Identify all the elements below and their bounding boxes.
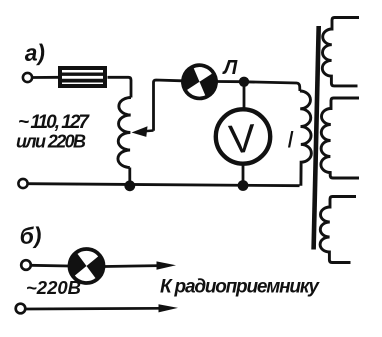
tap wire up to lamp level	[154, 80, 183, 131]
svg-text:или 220В: или 220В	[16, 132, 86, 152]
svg-text:~ 110, 127: ~ 110, 127	[18, 112, 90, 133]
terminal top-left	[23, 73, 32, 82]
wire bottom arrow	[26, 304, 179, 312]
svg-text:Л: Л	[222, 57, 239, 79]
wire junction to primary top	[244, 82, 300, 91]
junction dot top	[239, 77, 249, 87]
svg-text:I: I	[287, 127, 294, 154]
secondary winding middle	[321, 98, 359, 178]
arrow lamp to receiver	[105, 261, 177, 269]
wire terminal to fuse	[32, 76, 59, 79]
junction dot bottom	[238, 180, 249, 191]
secondary winding top	[322, 18, 359, 86]
terminal bottom-left	[18, 179, 27, 188]
wire fuse to coil top	[108, 77, 132, 97]
terminal b bottom	[16, 304, 26, 314]
primary winding I	[300, 91, 311, 186]
junction dot coil/bottom wire	[124, 180, 135, 191]
wire terminal to lamp b	[31, 264, 69, 268]
wire lamp to junction	[217, 80, 242, 83]
svg-text:V: V	[227, 117, 257, 163]
voltmeter V	[216, 109, 270, 163]
svg-text:К радиоприемнику: К радиоприемнику	[160, 277, 320, 298]
svg-text:а): а)	[24, 39, 46, 66]
fuse F1	[60, 68, 105, 86]
autotransformer winding	[118, 97, 131, 167]
secondary winding bottom	[320, 197, 356, 263]
lamp b	[68, 247, 106, 285]
transformer core	[314, 26, 319, 250]
lamp L (circuit a)	[179, 61, 220, 102]
tap arrow	[132, 126, 154, 137]
terminal b top	[21, 260, 31, 270]
svg-text:б): б)	[19, 222, 42, 249]
wire voltmeter to bottom junction	[242, 164, 245, 186]
wire junction down to voltmeter	[243, 82, 246, 109]
svg-text:~220В: ~220В	[26, 277, 81, 298]
wire coil bottom to junction	[128, 168, 131, 187]
bottom wire	[28, 184, 300, 186]
